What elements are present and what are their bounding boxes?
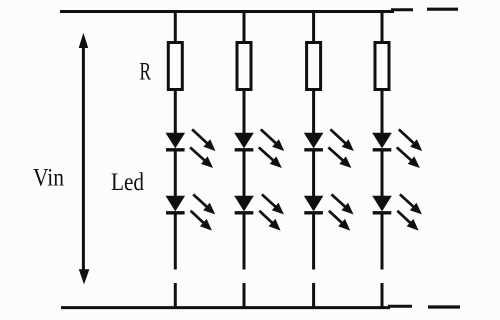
LED D4a light emission arrow 1: [399, 129, 422, 151]
wire LED D2b down lead: [243, 213, 246, 270]
wire rail to resistor R3: [312, 11, 315, 45]
svg-text:R: R: [140, 59, 152, 86]
LED D1a light emission arrow 1: [192, 129, 215, 151]
LED D3b cathode bar: [304, 211, 323, 214]
wire top rail (+V bus): [60, 10, 394, 13]
wire LED D3b down lead: [312, 213, 315, 270]
wire rail to resistor R1: [174, 11, 177, 45]
wire top rail continuation dash: [427, 8, 458, 11]
LED D2a light emission arrow 1: [261, 129, 284, 151]
LED D4a light emission arrow 2: [397, 147, 420, 168]
LED D4b light emission arrow 2: [397, 211, 418, 231]
LED D1b light emission arrow 2: [191, 211, 212, 231]
wire resistor R2 to LED D2a: [243, 90, 246, 135]
LED D2b cathode bar: [235, 211, 254, 214]
wire rail to resistor R4: [381, 11, 384, 45]
LED D1a cathode bar: [166, 148, 185, 151]
LED D1b anode triangle: [166, 196, 186, 212]
wire resistor R1 to LED D1a: [174, 90, 177, 135]
LED D3b anode triangle: [304, 196, 324, 212]
LED D4a cathode bar: [373, 148, 392, 151]
LED D4b light emission arrow 1: [400, 194, 422, 214]
LED D3a anode triangle: [304, 133, 324, 149]
LED D2a anode triangle: [234, 133, 254, 149]
wire branch 3 tick to bottom rail: [312, 283, 315, 309]
wire LED D4a to LED D4b: [381, 150, 384, 198]
LED D2b light emission arrow 2: [259, 211, 280, 231]
resistor R4: [375, 43, 389, 90]
LED D1a anode triangle: [166, 133, 186, 149]
wire LED D2a to LED D2b: [243, 150, 246, 198]
svg-text:Led: Led: [111, 169, 144, 196]
LED D1a light emission arrow 2: [190, 147, 213, 168]
LED D1b light emission arrow 1: [193, 194, 215, 214]
LED D1b cathode bar: [166, 211, 185, 214]
LED D2a cathode bar: [235, 148, 254, 151]
wire bottom rail (return bus): [61, 306, 390, 309]
wire branch 1 tick to bottom rail: [174, 283, 177, 309]
node Vin double-headed arrow: [79, 33, 90, 285]
wire bottom rail continuation dash: [428, 305, 460, 308]
wire rail to resistor R2: [243, 11, 246, 45]
LED D3a light emission arrow 1: [330, 129, 353, 151]
resistor R1: [168, 43, 182, 90]
wire LED D1b down lead: [174, 213, 177, 270]
LED D3b light emission arrow 1: [332, 194, 354, 214]
resistor R3: [307, 43, 321, 90]
LED D2b anode triangle: [234, 196, 254, 212]
wire LED D1a to LED D1b: [174, 150, 177, 198]
wire resistor R3 to LED D3a: [312, 90, 315, 135]
LED D2b light emission arrow 1: [262, 194, 284, 214]
LED D4b anode triangle: [372, 196, 392, 212]
wire top rail jog segment: [391, 8, 413, 11]
LED D4b cathode bar: [373, 211, 392, 214]
LED D3b light emission arrow 2: [329, 211, 350, 231]
LED D3a cathode bar: [304, 148, 323, 151]
wire bottom rail jog segment: [388, 305, 412, 308]
wire LED D4b down lead: [381, 213, 384, 270]
LED D3a light emission arrow 2: [328, 147, 351, 168]
wire branch 2 tick to bottom rail: [243, 283, 246, 309]
wire resistor R4 to LED D4a: [381, 90, 384, 135]
resistor R2: [237, 43, 251, 90]
svg-text:Vin: Vin: [33, 165, 64, 192]
wire branch 4 tick to bottom rail: [381, 283, 384, 309]
wire LED D3a to LED D3b: [312, 150, 315, 198]
LED D4a anode triangle: [372, 133, 392, 149]
LED D2a light emission arrow 2: [259, 147, 282, 168]
